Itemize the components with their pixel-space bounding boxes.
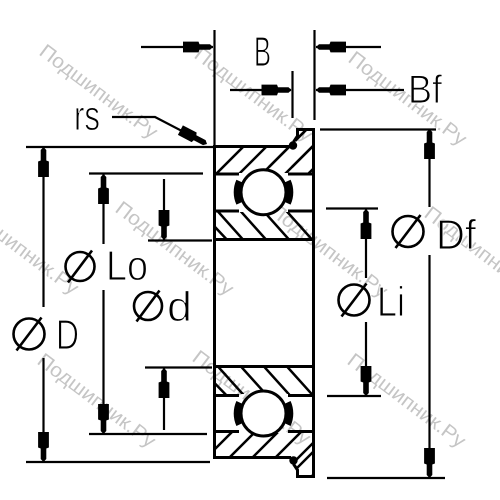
- Li top extension line: [326, 207, 378, 209]
- svg-text:Bf: Bf: [408, 68, 443, 112]
- Bf dimension line right: [316, 89, 404, 91]
- phi symbols: [14, 215, 424, 351]
- race line bottom-outer: [215, 430, 240, 433]
- d top extension line: [148, 239, 212, 241]
- D bottom extension line: [26, 461, 210, 463]
- svg-text:d: d: [167, 283, 192, 330]
- phi of Df: [393, 216, 424, 247]
- right face: [312, 128, 315, 478]
- Lo dimension line: [102, 174, 104, 244]
- hatching: inner ring top band: [199, 206, 316, 244]
- svg-text:Li: Li: [377, 278, 405, 325]
- Li bottom arrow: [361, 366, 372, 396]
- bearing outline: [213, 128, 315, 478]
- Df bottom extension line: [327, 477, 445, 479]
- flange top face: [296, 128, 315, 131]
- Bf left arrow: [262, 85, 292, 96]
- flange top-left edge: [294, 129, 298, 142]
- B right extension line: [313, 30, 315, 120]
- dimension and extension lines: [26, 30, 445, 478]
- d top arrow: [159, 210, 170, 240]
- Li bottom extension line: [327, 395, 381, 397]
- hatching: inner ring bottom band: [196, 361, 318, 401]
- bore top surface: [215, 238, 314, 241]
- Lo top extension line: [89, 172, 203, 174]
- Lo bottom extension line: [89, 433, 207, 435]
- B right arrow: [316, 42, 346, 53]
- D top arrow: [38, 147, 49, 177]
- Lo bottom arrow: [98, 404, 109, 434]
- B left extension line: [213, 30, 215, 145]
- bore bottom surface: [215, 365, 314, 368]
- Bf left extension line: [291, 71, 293, 118]
- phi of d: [134, 292, 162, 320]
- phi of D: [14, 319, 45, 350]
- D top extension line: [26, 146, 213, 148]
- Df dimension line: [428, 129, 430, 207]
- Li dimension line: [365, 209, 367, 278]
- d dimension stub bottom: [163, 368, 165, 430]
- Df top arrow: [424, 129, 435, 159]
- Df bottom arrow: [424, 448, 435, 478]
- Bf right arrow: [316, 85, 346, 96]
- phi of Li: [339, 285, 370, 316]
- d bottom extension line: [145, 366, 212, 368]
- svg-text:Df: Df: [436, 211, 476, 258]
- rs leader: [112, 117, 205, 143]
- top face: [213, 145, 291, 148]
- race line top-inner: [215, 210, 240, 213]
- ball top race shoulder arcs: [237, 181, 239, 203]
- flange bottom-left edge: [294, 464, 298, 477]
- D dimension line: [42, 147, 44, 307]
- flange fillet dot bottom: [289, 456, 297, 464]
- ball bottom race shoulder arcs: [237, 403, 239, 425]
- ball top: [241, 170, 286, 215]
- race line bottom-inner: [215, 394, 240, 397]
- Lo top arrow: [98, 174, 109, 204]
- D bottom arrow: [38, 432, 49, 462]
- B left arrow: [183, 42, 213, 53]
- hatching: outer ring top band (with flange): [196, 121, 352, 487]
- race line top-outer: [215, 173, 240, 176]
- left face: [213, 145, 216, 459]
- rs leader arrow: [178, 125, 210, 148]
- svg-text:Lo: Lo: [106, 242, 148, 289]
- flange fillet dot top: [289, 141, 297, 149]
- svg-text:B: B: [254, 28, 271, 75]
- B dimension line left: [141, 46, 213, 48]
- bottom face: [213, 456, 291, 459]
- d bottom arrow: [159, 368, 170, 398]
- Li top arrow: [361, 209, 372, 239]
- arrowheads: [38, 42, 435, 478]
- svg-text:D: D: [56, 311, 79, 358]
- svg-text:rs: rs: [74, 92, 100, 139]
- ball bottom: [241, 391, 286, 436]
- Df top extension line: [320, 128, 436, 130]
- phi of Lo: [66, 252, 95, 281]
- Bf dimension line left: [230, 89, 291, 91]
- hatching: outer ring bottom band (with flange): [202, 422, 341, 487]
- flange bottom face: [296, 475, 315, 478]
- d dimension stub top: [163, 179, 165, 240]
- B dimension line right: [316, 46, 381, 48]
